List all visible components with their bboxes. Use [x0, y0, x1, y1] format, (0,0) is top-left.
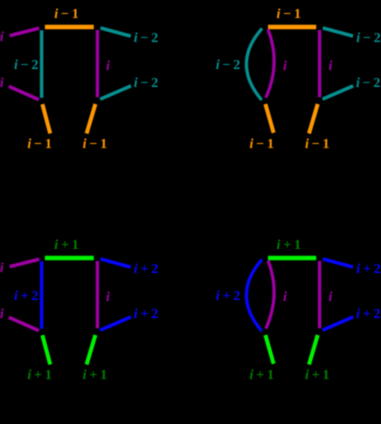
top-right graph right vertical edge label i [329, 60, 333, 74]
bottom-left graph upper-left node label i [0, 262, 4, 276]
bottom-right graph top horizontal edge [268, 256, 316, 260]
top-left graph left vertical edge [40, 30, 43, 98]
bottom-left graph lower-left node label i [0, 308, 4, 322]
bottom-right graph right vertical edge [318, 261, 321, 328]
top-left graph upper-left diagonal edge [10, 28, 40, 36]
top-left graph lower-right diagonal edge [100, 86, 131, 99]
top-right graph bottom-left leg label [250, 138, 274, 152]
bottom-right graph bottom-left leg edge [265, 335, 273, 364]
top-right graph upper-right edge label [356, 32, 380, 46]
top-right graph lower-right edge label [356, 77, 380, 91]
top-right graph bigon inner arc edge [266, 29, 274, 97]
top-left graph bottom-left leg edge [42, 104, 50, 133]
top-right graph upper-right diagonal edge [323, 28, 353, 36]
top-left graph bottom-left leg label [27, 138, 51, 152]
bottom-left graph upper-left diagonal edge [10, 259, 40, 267]
top-right graph bigon outer arc edge [246, 28, 262, 100]
top-left graph upper-left node label i [0, 31, 4, 45]
bottom-right graph bigon inner arc label i [283, 291, 287, 305]
top-right graph bigon outer arc label [216, 59, 240, 73]
bottom-left graph right vertical edge [96, 261, 99, 328]
top-left graph upper-right diagonal edge [101, 28, 131, 36]
top-left graph left vertical edge label [14, 59, 38, 73]
bottom-left graph bottom-right leg edge [87, 335, 96, 365]
bottom-right graph bottom-right leg edge [309, 335, 318, 365]
top-left graph right vertical edge [96, 30, 99, 97]
bottom-right graph upper-right edge label [356, 263, 380, 277]
top-right graph bottom-left leg edge [265, 104, 273, 133]
bottom-left graph lower-right edge label [134, 308, 158, 322]
top-right graph bigon inner arc label i [283, 60, 287, 74]
top-left graph bottom-right leg label [83, 138, 107, 152]
top-right graph right vertical edge [318, 30, 321, 97]
top-right graph top horizontal edge [268, 25, 316, 29]
bottom-right graph bigon outer arc edge [246, 259, 262, 331]
bottom-left graph left vertical edge [40, 261, 43, 329]
bottom-right graph lower-right diagonal edge [323, 317, 354, 330]
bottom-left graph top horizontal edge [45, 256, 94, 260]
top-right graph bottom-right leg edge [309, 104, 318, 134]
top-right graph lower-right diagonal edge [323, 86, 354, 99]
bottom-left graph lower-right diagonal edge [100, 317, 131, 330]
bottom-right graph right vertical edge label i [329, 291, 333, 305]
bottom-left graph bottom-left leg label [27, 369, 51, 383]
bottom-right graph upper-right diagonal edge [323, 259, 353, 267]
top-left graph bottom-right leg edge [87, 104, 96, 134]
top-right graph bottom-right leg label [305, 138, 329, 152]
bottom-right graph bottom-right leg label [305, 369, 329, 383]
bottom-right graph bigon inner arc edge [266, 260, 274, 328]
bottom-left graph lower-left diagonal edge [9, 317, 39, 330]
bottom-left graph left vertical edge label [14, 290, 38, 304]
top-left graph right vertical edge label i [106, 60, 110, 74]
bottom-left graph upper-right diagonal edge [101, 259, 131, 267]
bottom-right graph bigon outer arc label [216, 290, 240, 304]
bottom-left graph upper-right edge label [134, 263, 158, 277]
bottom-left graph top edge label [54, 239, 78, 253]
bottom-left graph bottom-right leg label [83, 369, 107, 383]
top-left graph lower-left node label i [0, 77, 4, 91]
top-left graph lower-right edge label [134, 77, 158, 91]
bottom-left graph bottom-left leg edge [42, 335, 50, 364]
top-left graph top edge label [54, 8, 78, 22]
top-left graph lower-left diagonal edge [9, 86, 39, 99]
bottom-right graph lower-right edge label [356, 308, 380, 322]
bottom-right graph bottom-left leg label [250, 369, 274, 383]
top-right graph top edge label [277, 8, 301, 22]
bottom-right graph top edge label [277, 239, 301, 253]
bottom-left graph right vertical edge label i [106, 291, 110, 305]
top-left graph upper-right edge label [134, 32, 158, 46]
top-left graph top horizontal edge [45, 25, 94, 29]
